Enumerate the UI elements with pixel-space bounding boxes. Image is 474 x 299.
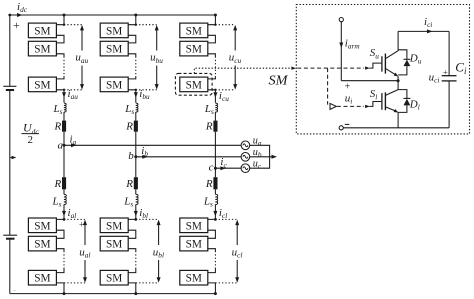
svg-text:R: R	[54, 121, 62, 133]
svg-text:Ls: Ls	[124, 103, 134, 116]
wire: Ls to R	[63, 112, 65, 121]
svg-text:Ci: Ci	[455, 60, 467, 77]
wire phase b to source	[136, 156, 241, 158]
wire: SM2 exit down	[56, 54, 64, 57]
svg-text:idc: idc	[17, 1, 28, 14]
submodule SM1 upper a	[28, 23, 56, 38]
wire: R to node a	[63, 132, 65, 146]
wire: bottom rail	[343, 127, 449, 129]
inductor Ls lower a	[64, 194, 66, 204]
wire phase c to source	[215, 167, 241, 169]
transistor Sl gate bar	[381, 93, 383, 110]
svg-text:R: R	[125, 121, 133, 133]
measure arrow u_bl	[158, 223, 160, 280]
node: entry corner dot	[135, 24, 137, 26]
resistor R upper c	[213, 121, 217, 132]
wire: SM3 exit to bottom bus	[128, 283, 136, 294]
svg-text:uc: uc	[253, 158, 262, 170]
wire: Ls to SM1 entry	[128, 204, 136, 219]
svg-text:ubu: ubu	[150, 52, 163, 65]
wire: source a to common bus	[250, 145, 270, 157]
measure arrow u_au	[81, 28, 83, 87]
svg-text:a: a	[58, 139, 64, 151]
gate lead Sl	[369, 102, 381, 107]
wire: SM1-SM2 connector	[56, 35, 64, 43]
wire: SM3 exit to arm	[56, 90, 64, 103]
wire: arm input vertical	[340, 22, 342, 81]
leader dotted u_au bottom	[64, 89, 82, 91]
resistor R lower a	[62, 177, 66, 189]
wire: Ls to SM1 entry	[208, 204, 216, 219]
svg-text:uau: uau	[75, 52, 88, 65]
leader dotted u_cl top	[215, 218, 237, 220]
svg-text:+: +	[13, 18, 20, 32]
svg-text:Ls: Ls	[53, 103, 63, 116]
svg-text:Sl: Sl	[370, 88, 378, 101]
node: entry corner dot	[214, 218, 217, 221]
svg-text:R: R	[125, 178, 133, 190]
arrow i_dc on top bus	[17, 13, 23, 17]
node: top-left corner junction	[8, 14, 11, 17]
wire: SM2 exit down	[208, 249, 216, 251]
arrow i_cu	[213, 92, 217, 98]
diode Du	[398, 50, 407, 60]
inductor Ls upper c	[215, 103, 217, 112]
svg-text:b: b	[128, 150, 134, 162]
submodule SM3 lower b	[100, 270, 128, 285]
arrow i_arm	[339, 43, 343, 49]
submodule SM2 upper c	[180, 41, 208, 56]
gate drive dashed: lower branch	[327, 68, 329, 105]
ac source u_b	[241, 153, 250, 162]
leader dotted u_cl bottom	[215, 282, 237, 284]
inductor Ls upper a	[64, 103, 66, 112]
wire: SM1-SM2 connector	[208, 230, 216, 238]
svg-text:ual: ual	[79, 247, 90, 260]
inductor Ls upper b	[136, 103, 138, 112]
wire: source b to common + neutral arrow	[250, 156, 272, 158]
svg-text:ucl: ucl	[232, 247, 243, 260]
measure arrow u_bu	[156, 28, 158, 87]
arrow on left rail (direction mark)	[10, 157, 12, 159]
transistor Su collector	[385, 31, 398, 58]
wire: node b down to R	[135, 157, 137, 177]
resistor R upper a	[62, 121, 66, 132]
wire: left DC rail middle	[9, 90, 11, 235]
svg-text:R: R	[205, 121, 213, 133]
wire: dotted continuation	[214, 57, 216, 77]
node: exit corner dot	[63, 89, 65, 91]
submodule SM3 upper c (highlighted)	[180, 77, 208, 92]
node: bottom bus junction	[134, 292, 137, 295]
wire: SM2 exit down	[56, 249, 64, 251]
svg-text:ua: ua	[253, 136, 262, 148]
wire: top DC bus	[10, 14, 216, 16]
arrow i_b	[142, 155, 148, 159]
capacitor Ci top plate	[442, 75, 457, 77]
arrow i_c	[220, 166, 226, 170]
wire: R to Ls	[63, 189, 65, 194]
svg-text:Ls: Ls	[52, 196, 62, 209]
battery B1 long plate	[3, 85, 16, 87]
measure arrow u_al	[84, 223, 86, 280]
wire: dotted continuation (omitted SMs)	[63, 57, 65, 77]
svg-text:Su: Su	[370, 47, 380, 60]
resistor R upper b	[134, 121, 138, 132]
diode Dl	[398, 90, 407, 99]
arrow i_bl	[134, 211, 138, 217]
svg-text:ibu: ibu	[139, 88, 150, 101]
svg-text:ia: ia	[70, 133, 77, 146]
wire: capacitor bottom lead	[448, 81, 450, 128]
svg-text:c: c	[209, 161, 214, 173]
wire: R to Ls	[214, 189, 216, 194]
wire: SM3 exit to bottom bus	[56, 283, 64, 294]
buffer triangle	[330, 103, 336, 109]
wire: into SM3 entry	[128, 76, 136, 79]
svg-text:icu: icu	[219, 90, 229, 103]
wire phase a to source	[64, 144, 241, 146]
node: entry corner dot	[63, 218, 66, 221]
fraction bar of U_dc/2	[22, 133, 40, 135]
arrow i_bu	[134, 92, 138, 98]
leader dotted u_cu bottom	[215, 89, 235, 91]
transistor Su gate bar	[381, 56, 383, 71]
submodule SM2 upper a	[28, 41, 56, 56]
submodule SM1 upper b	[100, 23, 128, 38]
wire: SM2 exit down	[128, 249, 136, 251]
ac source u_c	[241, 164, 250, 173]
terminal: bottom circle	[339, 126, 343, 130]
measure arrow u_cl	[236, 223, 238, 280]
svg-text:icl: icl	[219, 207, 227, 220]
leader dotted u_bu bottom	[136, 89, 157, 91]
wire: dotted continuation	[135, 251, 137, 269]
inductor Ls lower b	[136, 194, 138, 204]
wire: node a down to R	[63, 145, 65, 177]
wire: left DC rail upper	[9, 15, 11, 86]
inductor Ls lower c	[215, 194, 217, 204]
wire: Ls to R	[135, 112, 137, 121]
ac source u_a	[241, 141, 250, 150]
node: entry corner dot	[63, 24, 65, 26]
svg-text:Ls: Ls	[123, 196, 133, 209]
wire: SM1-SM2 connector	[56, 230, 64, 238]
svg-text:+: +	[345, 82, 351, 93]
transistor Sl emitter with arrow	[385, 107, 394, 111]
battery B2 long plate	[3, 234, 17, 236]
wire: into SM3 entry	[208, 76, 216, 79]
svg-text:Du: Du	[409, 53, 422, 66]
transistor Su emitter with arrow	[385, 68, 394, 74]
svg-text:ib: ib	[141, 145, 148, 158]
arrow i_ci	[427, 29, 433, 33]
node: exit corner dot	[135, 89, 137, 91]
node: entry corner dot	[214, 24, 216, 26]
submodule SM3 upper a	[28, 77, 56, 92]
wire: R to Ls	[135, 189, 137, 194]
wire: bus drop to SM1 entry	[128, 15, 136, 25]
leader dotted u_cu top	[215, 24, 235, 26]
leader dotted u_bl bottom	[136, 282, 159, 284]
svg-text:ic: ic	[220, 156, 227, 169]
svg-text:ibl: ibl	[139, 207, 148, 220]
svg-text:...: ...	[13, 287, 16, 292]
leader dotted u_al top	[64, 218, 85, 220]
wire: top rail to capacitor	[398, 30, 449, 32]
wire: into SM3 entry	[208, 269, 216, 273]
label - (u_i polarity)	[345, 123, 350, 125]
node: entry corner dot	[134, 218, 137, 221]
wire: SM2 exit down	[128, 54, 136, 57]
svg-text:+: +	[443, 67, 448, 77]
submodule SM2 lower a	[28, 236, 56, 251]
wire: R to node c	[214, 132, 216, 169]
wire: SM3 exit to bottom bus	[208, 283, 216, 294]
arrow i_a	[71, 143, 77, 147]
leader dotted u_bu top	[136, 24, 157, 26]
wire: SM3 exit to arm	[208, 90, 216, 103]
svg-text:ial: ial	[68, 207, 77, 220]
wire: source c to common bus	[250, 157, 270, 168]
svg-text:uci: uci	[429, 72, 440, 85]
submodule SM1 upper c	[180, 23, 208, 38]
arrow i_cl	[213, 211, 217, 217]
arrow i_au	[62, 92, 66, 98]
wire: into SM3 entry	[56, 76, 64, 79]
wire: into SM3 entry	[56, 269, 64, 273]
svg-text:ucu: ucu	[229, 52, 242, 65]
wire: into SM3 entry	[128, 269, 136, 273]
svg-text:ici: ici	[424, 16, 432, 29]
wire: bus drop to SM1 entry	[208, 15, 216, 25]
svg-text:iarm: iarm	[345, 38, 360, 51]
node: bottom bus junction	[63, 292, 66, 295]
node: exit corner dot	[214, 89, 216, 91]
svg-text:R: R	[205, 178, 213, 190]
arrow i_al	[62, 211, 66, 217]
wire: dotted continuation	[63, 251, 65, 269]
resistor R lower b	[134, 177, 138, 189]
battery B2 short plate	[6, 238, 15, 240]
node b dot	[134, 155, 137, 158]
wire: left DC rail lower	[9, 239, 11, 294]
dashed highlight box around SM3 c	[175, 73, 212, 95]
node: bus junction phase a	[63, 14, 66, 17]
submodule SM2 lower b	[100, 236, 128, 251]
wire: SM1-SM2 connector	[128, 230, 136, 238]
leader dotted u_au top	[64, 24, 82, 26]
submodule SM3 upper b	[100, 77, 128, 92]
wire: capacitor top lead	[448, 31, 450, 75]
transistor Su channel bar	[384, 54, 386, 74]
wire: dotted continuation	[214, 251, 216, 269]
node: midpoint junction dot	[397, 79, 400, 82]
submodule SM3 lower c	[180, 270, 208, 285]
battery B1 short plate	[6, 89, 14, 91]
svg-text:SM: SM	[269, 74, 289, 89]
submodule SM2 lower c	[180, 236, 208, 251]
wire: SM1-SM2 connector	[128, 35, 136, 43]
wire: arm input horizontal to midpoint	[341, 80, 398, 82]
submodule SM3 lower a	[28, 270, 56, 285]
svg-text:ub: ub	[253, 147, 262, 159]
submodule SM1 lower b	[100, 218, 128, 233]
terminal: top input circle	[339, 18, 343, 22]
detail box dotted border	[296, 5, 469, 134]
submodule SM1 lower c	[180, 218, 208, 233]
node: bus junction phase c	[214, 14, 217, 17]
wire: Ls to SM1 entry	[56, 204, 64, 219]
wire: bottom DC bus	[10, 293, 216, 295]
submodule SM1 lower a	[28, 218, 56, 233]
svg-text:Ls: Ls	[204, 103, 214, 116]
dashed callout leader from SM3 c to detail box	[194, 68, 292, 73]
wire: bus drop to SM1 entry	[56, 15, 64, 25]
svg-text:R: R	[54, 178, 62, 190]
capacitor Ci bottom plate	[442, 80, 457, 82]
wire: R to node b	[135, 132, 137, 157]
node: bus junction phase b	[134, 14, 137, 17]
svg-text:Dl: Dl	[409, 99, 420, 112]
submodule SM2 upper b	[100, 41, 128, 56]
svg-text:2: 2	[28, 134, 34, 146]
resistor R lower c	[213, 177, 217, 189]
gate drive dashed: upper	[297, 67, 364, 69]
svg-text:ui: ui	[345, 93, 353, 106]
wire: SM1-SM2 connector	[208, 35, 216, 43]
svg-text:Ls: Ls	[203, 196, 213, 209]
svg-text:iau: iau	[68, 88, 79, 101]
wire: SM3 exit to arm	[128, 90, 136, 103]
label U_dc/2	[23, 121, 39, 146]
wire: node c down to R	[214, 168, 216, 177]
gate lead Su	[369, 63, 381, 68]
leader dotted u_bl top	[136, 218, 159, 220]
wire: dotted continuation	[135, 57, 137, 77]
leader dotted u_al bottom	[64, 282, 85, 284]
measure arrow u_cu	[234, 28, 236, 87]
wire: Ls to R	[214, 112, 216, 121]
node a dot	[63, 144, 66, 147]
wire: SM2 exit down	[208, 54, 216, 57]
node: bottom bus junction	[214, 292, 217, 295]
node c dot	[214, 167, 217, 170]
transistor Sl channel bar	[384, 92, 386, 110]
svg-text:ubl: ubl	[153, 247, 164, 260]
transistor Sl collector	[385, 90, 398, 96]
